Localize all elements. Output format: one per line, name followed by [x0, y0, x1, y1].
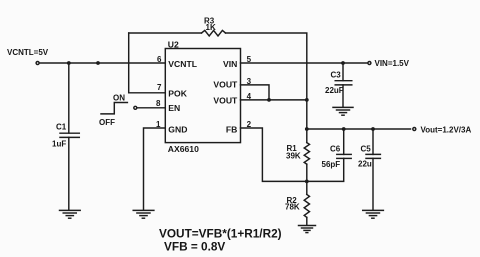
- wire VOUT net down: [306, 100, 308, 143]
- wire C3 bottom lead: [342, 85, 344, 107]
- svg-text:C3: C3: [331, 71, 342, 80]
- svg-text:VOUT=VFB*(1+R1/R2): VOUT=VFB*(1+R1/R2): [159, 226, 282, 240]
- svg-text:VIN: VIN: [223, 59, 237, 69]
- svg-text:ON: ON: [113, 94, 125, 103]
- svg-text:8: 8: [156, 99, 161, 108]
- wire FB pin 2: [241, 128, 307, 181]
- svg-text:1uF: 1uF: [52, 140, 66, 149]
- junction dot C1 tap: [67, 61, 71, 65]
- svg-text:78K: 78K: [285, 203, 300, 212]
- junction dot VOUT net: [305, 98, 309, 102]
- ground C3: [333, 107, 353, 115]
- wire C5 top lead: [372, 129, 374, 154]
- resistor R3: [202, 17, 226, 37]
- node VIN terminal: [368, 62, 371, 65]
- svg-text:EN: EN: [168, 103, 180, 113]
- IC U2 box: [165, 49, 240, 143]
- svg-text:Vout=1.2V/3A: Vout=1.2V/3A: [421, 125, 472, 134]
- node Vout terminal: [413, 128, 416, 131]
- wire C6 top lead: [343, 129, 345, 154]
- svg-text:39K: 39K: [286, 151, 301, 160]
- svg-text:AX6610: AX6610: [168, 144, 199, 154]
- svg-text:VOUT: VOUT: [213, 96, 238, 106]
- svg-text:VIN=1.5V: VIN=1.5V: [375, 59, 410, 68]
- junction dot Vout row: [305, 127, 309, 131]
- wire C1 bottom lead: [68, 137, 70, 210]
- wire top net left segment: [129, 32, 202, 34]
- capacitor C6: [322, 145, 352, 169]
- ground C1: [60, 210, 81, 218]
- wire C6 bottom to FB node: [307, 158, 344, 181]
- svg-text:VCNTL: VCNTL: [168, 59, 197, 69]
- svg-text:OFF: OFF: [99, 118, 115, 127]
- capacitor C5: [358, 145, 380, 169]
- node EN terminal: [134, 106, 137, 109]
- resistor R1: [286, 143, 310, 165]
- junction dot C3 tap: [341, 61, 345, 65]
- wire top net right segment: [226, 33, 307, 100]
- junction dot C5 tap: [371, 127, 375, 131]
- junction dot VCNTL net: [96, 61, 100, 65]
- resistor R2: [285, 194, 310, 217]
- svg-text:VFB = 0.8V: VFB = 0.8V: [164, 240, 225, 254]
- ground C5: [363, 210, 384, 218]
- ground GND pin: [133, 210, 154, 218]
- capacitor C1: [52, 123, 79, 149]
- svg-text:1K: 1K: [206, 23, 216, 32]
- wire POK riser: [129, 33, 166, 93]
- svg-text:22u: 22u: [358, 160, 372, 169]
- wire EN: [137, 107, 165, 109]
- wire R1 bottom to FB node: [306, 164, 308, 194]
- wire R2 bottom lead: [306, 217, 308, 225]
- svg-text:POK: POK: [168, 89, 187, 99]
- svg-text:VCNTL=5V: VCNTL=5V: [7, 48, 49, 57]
- svg-text:C1: C1: [56, 123, 67, 132]
- svg-text:C5: C5: [361, 145, 372, 154]
- wire GND pin to ground: [144, 128, 166, 210]
- wire C5 bottom lead: [372, 158, 374, 210]
- wire VOUT pin 3: [241, 85, 270, 100]
- svg-text:GND: GND: [168, 125, 187, 135]
- wire Vout row: [307, 128, 411, 130]
- node VCNTL terminal: [36, 62, 39, 65]
- svg-text:VOUT: VOUT: [213, 80, 238, 90]
- wire C1 top lead: [68, 63, 70, 133]
- svg-text:56pF: 56pF: [322, 160, 341, 169]
- junction dot pins 3-4: [267, 98, 271, 102]
- svg-text:FB: FB: [226, 125, 237, 135]
- svg-text:U2: U2: [168, 39, 179, 49]
- junction dot FB node: [305, 180, 309, 184]
- svg-text:22uF: 22uF: [325, 86, 344, 95]
- wire VCNTL node to pin 6: [40, 62, 166, 64]
- svg-text:6: 6: [157, 55, 162, 64]
- wire VOUT pin 4: [241, 99, 307, 101]
- wire C3 top lead: [342, 63, 344, 81]
- svg-text:C6: C6: [330, 145, 341, 154]
- ground R2: [299, 226, 316, 233]
- junction dot C6 tap: [342, 127, 346, 131]
- switch ON/OFF marker: [99, 94, 127, 127]
- svg-text:7: 7: [157, 83, 162, 92]
- wire VIN row: [241, 62, 368, 64]
- capacitor C3: [325, 71, 352, 96]
